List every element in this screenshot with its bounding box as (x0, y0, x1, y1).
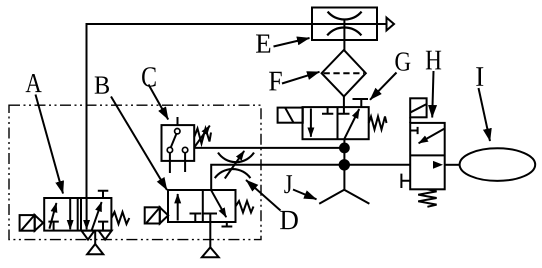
label arrow A (36, 95, 64, 194)
valve G return spring (369, 117, 387, 130)
wire: main supply line from valve A up and across to ejector E (87, 24, 387, 198)
label C (142, 67, 156, 87)
valve G position divider (337, 107, 339, 139)
label E (256, 35, 270, 53)
valve A drain stem and triangle (94, 231, 96, 245)
label I (476, 67, 483, 86)
valve B pilot triangle (160, 207, 168, 223)
valve A right box blocked port (98, 222, 108, 231)
pressure switch C setting spring (194, 129, 211, 144)
throttle valve D adjustment arrow (225, 151, 244, 179)
pressure switch C contacts (175, 129, 180, 134)
valve B plugged exhaust below (222, 222, 233, 227)
valve A right box down arrow (86, 199, 88, 230)
valve A plugged port top (98, 191, 109, 198)
label arrow C (149, 85, 169, 120)
valve H solenoid (410, 98, 426, 117)
valve H upper box diagonal arrow (419, 129, 445, 143)
pressure switch C top stub (177, 117, 179, 125)
filter F dashed element (324, 72, 365, 74)
wire: filter F to valve G (343, 96, 345, 107)
wire: valve G down through junctions to vent J (343, 139, 345, 190)
valve A pilot triangle (35, 215, 43, 231)
label B (95, 77, 109, 94)
filter F diamond (322, 50, 366, 97)
valve B body (168, 190, 236, 222)
valve A position dividers (78, 198, 81, 231)
exhaust outlet open triangle at right of E (387, 18, 395, 31)
pressure switch C adjustment arrow (195, 126, 210, 147)
valve A left box down arrow (69, 198, 71, 229)
valve A left box blocked port (48, 222, 58, 231)
ejector E upper venturi arc (328, 12, 362, 20)
valve H plugged port left (401, 174, 410, 188)
label arrow E (274, 38, 310, 47)
ejector E lower venturi arc (327, 28, 361, 36)
wire: valve H to pad I (445, 164, 460, 166)
valve B exhaust triangle (202, 247, 219, 257)
valve B left box up arrow (177, 194, 179, 221)
valve B return spring (236, 201, 254, 213)
label arrow D (246, 180, 281, 211)
valve G right box blocked port (338, 107, 349, 114)
valve G plugged exhaust port top (353, 99, 369, 107)
valve H body (409, 117, 411, 123)
valve B position divider (202, 190, 204, 222)
label J (284, 175, 292, 193)
label A (26, 74, 42, 92)
vent J branches (319, 190, 369, 204)
node: junction upper (340, 144, 349, 153)
valve A body (44, 198, 111, 231)
label arrow I (479, 88, 491, 141)
pad I ellipse (460, 148, 536, 181)
valve B left box blocked port (190, 214, 202, 223)
valve G solenoid (278, 108, 303, 123)
valve A return spring (111, 212, 129, 224)
vacuum ejector E body (312, 8, 377, 41)
label arrow F (282, 72, 320, 84)
valve G right box diagonal arrow (344, 109, 359, 139)
valve G left box blocked port (322, 107, 333, 114)
label H (426, 51, 441, 70)
valve H lower box through arrow (433, 161, 443, 169)
label arrow J (293, 190, 317, 200)
valve A exhaust triangle left (81, 231, 94, 240)
ejector E vacuum port stem (343, 19, 345, 50)
wire: pressure switch C to junction (194, 147, 344, 149)
wire: valve B top port to throttle D to valve H (211, 165, 410, 190)
enclosure dash-dot box (9, 105, 261, 239)
valve H position divider (410, 154, 445, 156)
valve B right box diagonal arrow (211, 190, 226, 217)
throttle valve D arcs (218, 153, 254, 163)
label D (280, 211, 298, 229)
pressure switch C box (162, 125, 195, 161)
valve B solenoid (145, 207, 160, 223)
valve A left box diagonal up arrow (49, 203, 56, 229)
valve A right box diagonal up arrow (92, 202, 102, 231)
label arrow H (432, 71, 433, 118)
valve H return spring (418, 189, 436, 207)
valve G body (303, 107, 369, 139)
valve B right box port T and stem (204, 214, 218, 248)
node: junction lower (340, 160, 349, 169)
valve H upper box blocked port (410, 127, 417, 134)
label F (269, 72, 282, 91)
valve A exhaust triangle right (99, 231, 112, 240)
valve G left box down arrow (310, 109, 312, 137)
valve A solenoid (20, 215, 35, 231)
label G (395, 52, 410, 70)
label arrow B (111, 97, 167, 191)
pressure switch C electrical leads (170, 153, 185, 173)
label arrow G (370, 73, 397, 100)
